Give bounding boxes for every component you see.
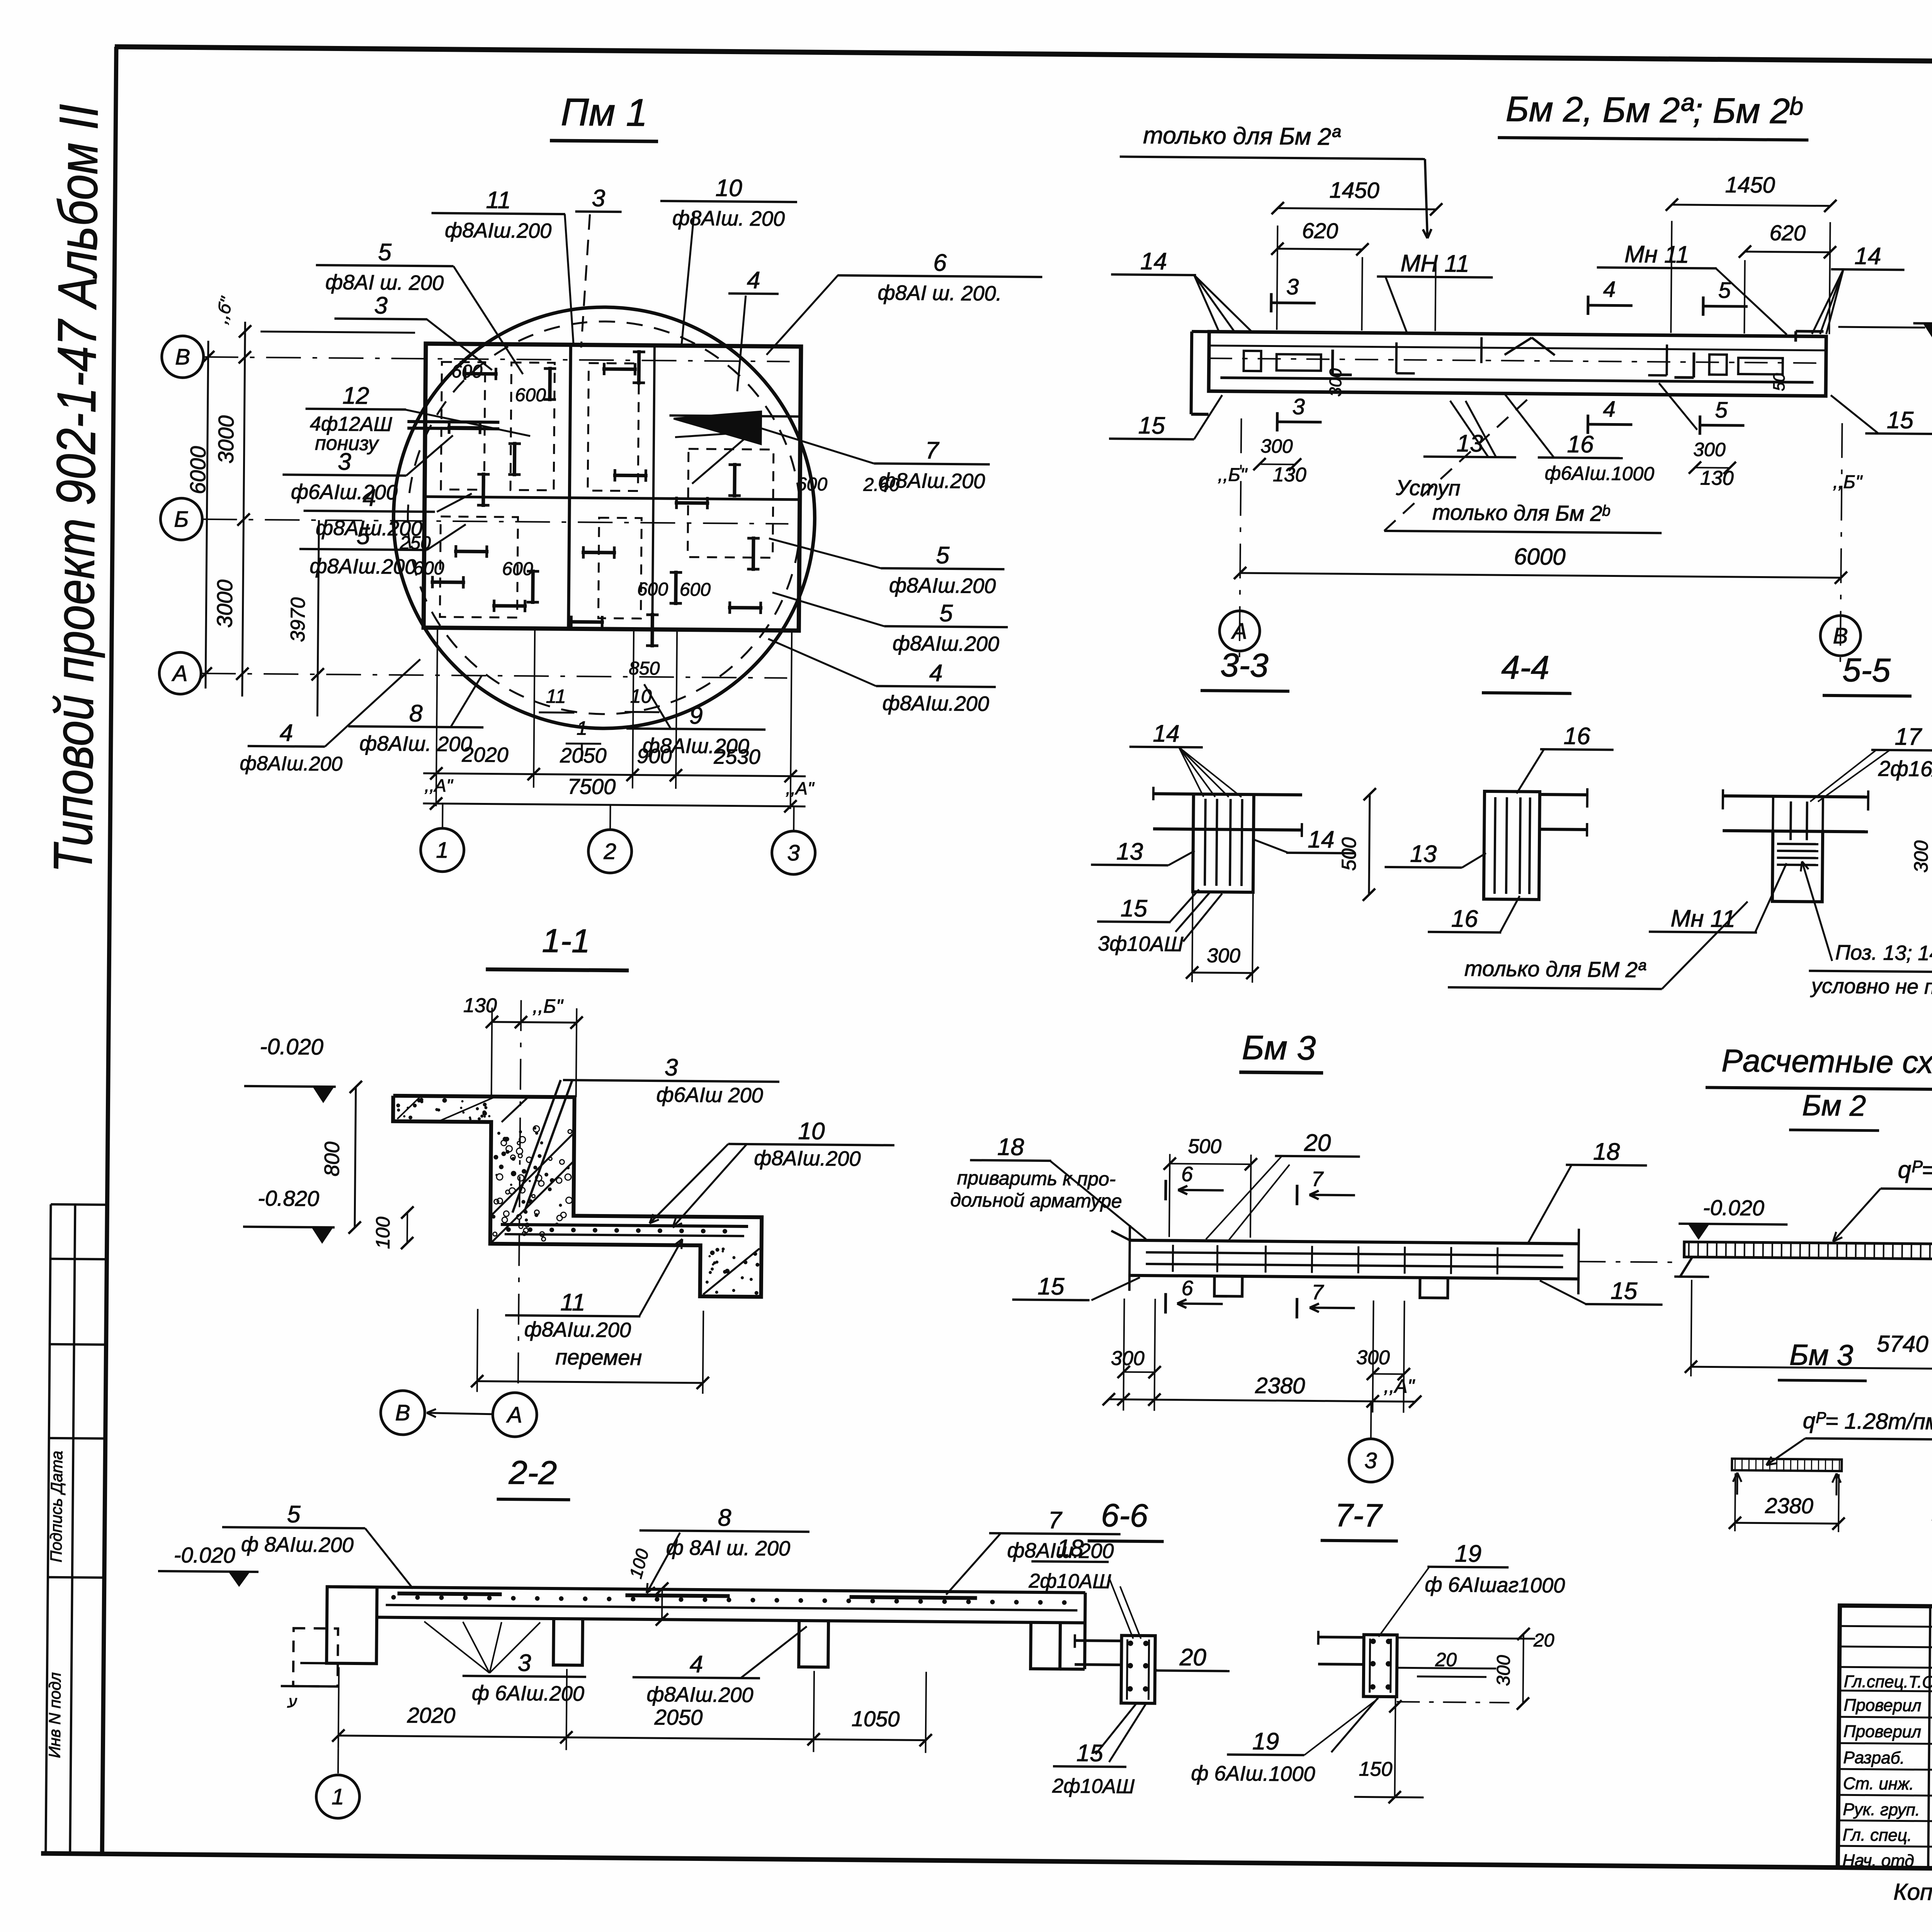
svg-text:14: 14	[1140, 248, 1167, 275]
svg-text:600: 600	[413, 558, 444, 579]
svg-text:300: 300	[1111, 1347, 1145, 1370]
svg-text:только для Бм 2ª: только для Бм 2ª	[1143, 122, 1341, 150]
svg-text:10: 10	[798, 1118, 825, 1145]
svg-text:3: 3	[592, 185, 605, 212]
svg-text:300: 300	[1326, 368, 1345, 396]
svg-text:Бм 2, Бм 2ª; Бм 2ᵇ: Бм 2, Бм 2ª; Бм 2ᵇ	[1505, 89, 1803, 131]
svg-text:600: 600	[680, 580, 711, 600]
svg-text:3: 3	[338, 449, 351, 475]
svg-text:2ф16АI: 2ф16АI	[1878, 756, 1932, 781]
svg-text:Мн 11: Мн 11	[1624, 241, 1689, 268]
svg-text:600: 600	[515, 385, 546, 406]
svg-text:8: 8	[409, 700, 423, 727]
svg-text:1: 1	[436, 838, 449, 863]
svg-text:ф8АIш.200: ф8АIш.200	[524, 1318, 631, 1342]
svg-text:3000: 3000	[214, 415, 238, 464]
svg-text:17: 17	[1895, 723, 1922, 750]
svg-text:800: 800	[320, 1141, 344, 1177]
svg-text:5: 5	[357, 523, 371, 549]
svg-text:2: 2	[603, 839, 616, 864]
svg-text:только для Бм 2ᵇ: только для Бм 2ᵇ	[1432, 500, 1610, 526]
svg-text:3970: 3970	[287, 597, 310, 642]
svg-text:6: 6	[1181, 1163, 1193, 1186]
svg-text:ф8АI ш. 200: ф8АI ш. 200	[325, 270, 444, 294]
svg-text:15: 15	[1887, 407, 1914, 434]
svg-text:3: 3	[1364, 1448, 1377, 1473]
svg-text:7500: 7500	[567, 774, 616, 799]
svg-text:600: 600	[502, 559, 533, 580]
svg-text:ф8АIш. 200: ф8АIш. 200	[672, 206, 785, 230]
svg-text:А: А	[506, 1402, 522, 1427]
svg-text:ф8АIш.200: ф8АIш.200	[646, 1683, 753, 1707]
svg-text:2380: 2380	[1255, 1373, 1305, 1398]
svg-text:1450: 1450	[1329, 178, 1379, 203]
svg-text:1050: 1050	[852, 1706, 900, 1731]
svg-text:qᴾ= 1.28т/пм.: qᴾ= 1.28т/пм.	[1803, 1408, 1932, 1434]
svg-text:3000: 3000	[212, 580, 237, 628]
svg-text:1-1: 1-1	[542, 922, 590, 960]
svg-text:15: 15	[1611, 1277, 1638, 1304]
svg-text:4: 4	[747, 267, 760, 294]
svg-text:620: 620	[1769, 221, 1806, 245]
svg-text:13: 13	[1116, 838, 1143, 865]
svg-text:500: 500	[1188, 1135, 1221, 1158]
svg-text:5: 5	[1715, 398, 1728, 423]
svg-text:Гл.спец.Т.О: Гл.спец.Т.О	[1844, 1672, 1932, 1692]
svg-text:2020: 2020	[407, 1703, 456, 1728]
svg-text:-0.020: -0.020	[174, 1543, 235, 1567]
svg-text:300: 300	[1260, 435, 1293, 457]
svg-text:-0.820: -0.820	[258, 1186, 319, 1211]
svg-text:7: 7	[1048, 1507, 1063, 1534]
svg-text:11: 11	[560, 1289, 585, 1316]
svg-text:1: 1	[577, 717, 587, 739]
svg-text:6-6: 6-6	[1101, 1497, 1148, 1534]
svg-text:ф8АIш.200: ф8АIш.200	[878, 469, 985, 493]
svg-text:,,Б": ,,Б"	[532, 995, 564, 1017]
svg-text:15: 15	[1077, 1740, 1104, 1767]
svg-text:Типовой проект 902-1-47 Альбо: Типовой проект 902-1-47 Альбом II	[42, 104, 110, 873]
svg-text:3: 3	[1286, 274, 1299, 299]
svg-text:ф8АIш. 200: ф8АIш. 200	[359, 732, 472, 756]
svg-text:12: 12	[342, 383, 369, 410]
svg-text:130: 130	[1273, 464, 1306, 486]
svg-text:6000: 6000	[185, 446, 210, 494]
svg-text:1: 1	[332, 1784, 344, 1810]
svg-text:15: 15	[1037, 1273, 1065, 1300]
svg-text:7-7: 7-7	[1335, 1497, 1383, 1534]
svg-text:1450: 1450	[1725, 172, 1776, 198]
svg-text:2050: 2050	[654, 1705, 703, 1730]
svg-text:100: 100	[372, 1216, 394, 1249]
svg-text:В: В	[395, 1400, 410, 1425]
svg-text:4: 4	[280, 719, 293, 746]
svg-text:Проверил: Проверил	[1844, 1722, 1921, 1742]
svg-text:15: 15	[1138, 412, 1165, 439]
svg-text:6: 6	[933, 250, 947, 276]
svg-text:Разраб.: Разраб.	[1843, 1748, 1905, 1767]
svg-text:18: 18	[1057, 1535, 1084, 1562]
svg-text:2ф10АШ: 2ф10АШ	[1028, 1570, 1111, 1593]
svg-text:5: 5	[1718, 278, 1731, 303]
svg-text:5740: 5740	[1877, 1331, 1929, 1357]
svg-text:3: 3	[787, 840, 800, 866]
svg-text:Инв N подл: Инв N подл	[45, 1672, 64, 1758]
svg-text:ф8АIш.200: ф8АIш.200	[310, 554, 417, 578]
svg-text:5-5: 5-5	[1842, 651, 1891, 689]
svg-text:900: 900	[637, 745, 672, 768]
svg-text:Расчетные схемы: Расчетные схемы	[1721, 1043, 1932, 1081]
svg-text:16: 16	[1563, 723, 1590, 750]
svg-text:3: 3	[374, 292, 388, 319]
svg-text:600: 600	[637, 579, 668, 600]
svg-text:150: 150	[1359, 1758, 1392, 1781]
svg-text:-0.020: -0.020	[1703, 1195, 1764, 1220]
svg-text:2530: 2530	[713, 745, 760, 769]
svg-text:ע: ע	[287, 1694, 297, 1711]
svg-text:,,А": ,,А"	[786, 778, 815, 799]
svg-text:5: 5	[939, 600, 953, 627]
svg-text:8: 8	[718, 1504, 732, 1531]
svg-text:20: 20	[1435, 1649, 1457, 1670]
svg-text:130: 130	[1700, 467, 1734, 490]
svg-text:перемен: перемен	[555, 1345, 642, 1370]
svg-text:5: 5	[936, 542, 950, 569]
svg-text:500: 500	[1338, 837, 1361, 871]
svg-text:ф6АIш.200: ф6АIш.200	[291, 480, 398, 504]
svg-text:А: А	[1231, 619, 1247, 644]
svg-text:300: 300	[1493, 1655, 1514, 1686]
svg-text:Копировал Пихарева: Копировал Пихарева	[1893, 1879, 1932, 1906]
svg-text:Ст. инж.: Ст. инж.	[1843, 1774, 1914, 1793]
svg-text:дольной арматуре: дольной арматуре	[950, 1189, 1122, 1212]
svg-text:7: 7	[1311, 1167, 1324, 1190]
svg-text:18: 18	[997, 1134, 1024, 1161]
svg-text:16: 16	[1567, 431, 1594, 458]
svg-text:3ф10АШ: 3ф10АШ	[1098, 932, 1184, 956]
svg-text:ф8АIш.200: ф8АIш.200	[882, 692, 989, 716]
svg-text:qᴾ=3,08т/пм.: qᴾ=3,08т/пм.	[1898, 1156, 1932, 1184]
svg-text:Бм 3: Бм 3	[1242, 1028, 1316, 1067]
svg-text:,,Б": ,,Б"	[1218, 464, 1248, 485]
svg-text:300: 300	[1693, 439, 1726, 461]
svg-text:50: 50	[1770, 373, 1788, 391]
svg-text:300: 300	[1207, 944, 1240, 967]
svg-text:3-3: 3-3	[1220, 647, 1269, 684]
svg-text:2380: 2380	[1765, 1493, 1813, 1518]
svg-text:16: 16	[1451, 905, 1478, 932]
svg-text:20: 20	[1304, 1129, 1331, 1156]
svg-text:14: 14	[1153, 720, 1180, 747]
svg-text:ф8АIш.200: ф8АIш.200	[240, 752, 342, 776]
svg-text:19: 19	[1455, 1540, 1482, 1567]
svg-text:ф6АIш 200: ф6АIш 200	[656, 1083, 763, 1107]
svg-text:-0.020: -0.020	[260, 1034, 323, 1060]
svg-text:13: 13	[1410, 840, 1437, 867]
svg-text:Поз. 13; 14: Поз. 13; 14	[1835, 941, 1932, 965]
svg-text:620: 620	[1302, 218, 1338, 243]
svg-text:Бм 2: Бм 2	[1802, 1089, 1866, 1122]
svg-text:10: 10	[715, 175, 742, 202]
svg-text:,,Б": ,,Б"	[1833, 472, 1863, 493]
svg-text:Мн 11: Мн 11	[1670, 905, 1735, 932]
svg-text:4: 4	[362, 485, 376, 511]
svg-text:6000: 6000	[1514, 543, 1566, 570]
svg-text:4: 4	[1603, 396, 1616, 422]
svg-text:11: 11	[486, 187, 511, 214]
svg-text:2ф10АШ: 2ф10АШ	[1052, 1775, 1134, 1798]
svg-text:4-4: 4-4	[1501, 649, 1549, 686]
svg-text:20: 20	[1533, 1630, 1554, 1651]
svg-text:9: 9	[689, 702, 703, 729]
svg-text:3: 3	[518, 1650, 531, 1676]
svg-text:600: 600	[451, 361, 483, 382]
svg-text:5: 5	[287, 1501, 301, 1528]
svg-text:7: 7	[925, 437, 940, 464]
svg-text:приварить к про-: приварить к про-	[957, 1167, 1116, 1190]
svg-text:600: 600	[796, 474, 828, 495]
svg-text:Подпись Дата: Подпись Дата	[47, 1451, 66, 1562]
svg-text:300: 300	[1910, 840, 1932, 873]
svg-text:ф 8АIш.200: ф 8АIш.200	[241, 1533, 354, 1557]
svg-text:18: 18	[1593, 1138, 1620, 1165]
svg-text:Гл. спец.: Гл. спец.	[1843, 1825, 1912, 1845]
svg-text:ф 6АIшаг1000: ф 6АIшаг1000	[1425, 1573, 1565, 1597]
svg-text:6: 6	[1182, 1277, 1194, 1300]
svg-text:15: 15	[1121, 895, 1148, 922]
svg-text:ф8АIш.200: ф8АIш.200	[754, 1146, 861, 1170]
svg-text:А: А	[172, 661, 188, 686]
svg-text:5: 5	[378, 239, 392, 265]
svg-text:14: 14	[1854, 243, 1881, 270]
svg-text:Нач. отд: Нач. отд	[1842, 1851, 1914, 1870]
svg-text:Б: Б	[174, 507, 189, 532]
svg-text:В: В	[1833, 623, 1848, 648]
svg-text:2-2: 2-2	[509, 1454, 557, 1492]
svg-text:только для БМ 2ª: только для БМ 2ª	[1464, 956, 1646, 982]
svg-text:3: 3	[1292, 394, 1305, 419]
svg-text:4: 4	[1603, 277, 1616, 302]
svg-text:11: 11	[546, 685, 566, 707]
svg-text:Рук. груп.: Рук. груп.	[1843, 1800, 1920, 1820]
svg-text:19: 19	[1252, 1728, 1279, 1755]
svg-text:3: 3	[665, 1054, 678, 1081]
svg-text:2020: 2020	[461, 743, 509, 767]
svg-text:МН 11: МН 11	[1400, 250, 1469, 277]
svg-text:ф 6АIш.1000: ф 6АIш.1000	[1191, 1762, 1315, 1786]
svg-text:4: 4	[929, 660, 943, 687]
svg-text:,,А": ,,А"	[425, 775, 454, 796]
svg-text:В: В	[175, 344, 190, 369]
svg-text:ф 8АI ш. 200: ф 8АI ш. 200	[666, 1536, 791, 1560]
svg-text:7: 7	[1312, 1281, 1324, 1304]
svg-text:Проверил: Проверил	[1844, 1696, 1921, 1715]
svg-text:2050: 2050	[560, 744, 607, 767]
svg-text:ф8АIш.200: ф8АIш.200	[893, 632, 1000, 656]
svg-text:Бм 3: Бм 3	[1789, 1338, 1854, 1372]
svg-text:ф8АIш.200: ф8АIш.200	[445, 219, 552, 243]
svg-text:Пм 1: Пм 1	[561, 90, 648, 134]
svg-text:Уступ: Уступ	[1395, 475, 1460, 500]
svg-text:20: 20	[1179, 1644, 1207, 1671]
svg-text:ф8АIш.200: ф8АIш.200	[889, 574, 996, 598]
svg-text:ф6АIш.1000: ф6АIш.1000	[1545, 462, 1655, 485]
svg-text:условно не показаны: условно не показаны	[1810, 975, 1932, 999]
svg-text:ф8АI ш. 200.: ф8АI ш. 200.	[878, 281, 1002, 306]
svg-text:4: 4	[690, 1651, 703, 1678]
svg-text:14: 14	[1308, 826, 1335, 853]
